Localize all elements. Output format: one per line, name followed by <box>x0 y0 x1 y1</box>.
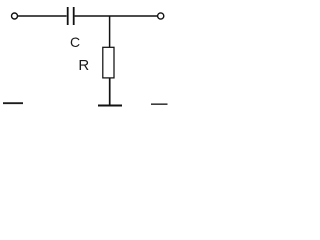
capacitor C (right plate) <box>73 7 75 25</box>
svg-text:R: R <box>78 57 89 74</box>
wire segment (bottom-right rail stub) <box>151 103 168 105</box>
input terminal (left open circle) <box>12 13 18 19</box>
wire: resistor bottom to ground <box>109 78 111 106</box>
wire: capacitor right plate to output terminal <box>75 15 158 17</box>
output terminal (right open circle) <box>158 13 164 19</box>
svg-text:C: C <box>70 34 80 50</box>
wire: junction down to resistor top <box>109 16 111 48</box>
capacitor C (left plate) <box>67 7 69 25</box>
resistor R (body) <box>103 47 114 78</box>
ground <box>98 105 122 107</box>
wire segment (bottom-left rail stub) <box>3 102 23 104</box>
wire: input terminal to capacitor left plate <box>18 15 67 17</box>
